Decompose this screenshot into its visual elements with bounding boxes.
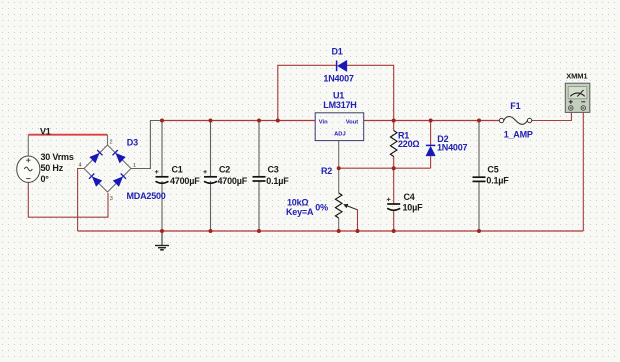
svg-text:50 Hz: 50 Hz	[41, 163, 64, 173]
svg-text:4700µF: 4700µF	[218, 176, 248, 186]
svg-text:R2: R2	[321, 166, 332, 176]
svg-text:LM317H: LM317H	[323, 100, 356, 110]
svg-text:U1: U1	[333, 90, 344, 100]
capacitor C5	[473, 177, 486, 181]
svg-text:10kΩ: 10kΩ	[287, 198, 308, 208]
svg-text:Vin: Vin	[319, 119, 328, 125]
ground	[155, 231, 169, 250]
svg-text:Key=A: Key=A	[286, 207, 314, 217]
wire V1 bottom to bridge pin3	[28, 183, 108, 218]
svg-text:F1: F1	[510, 101, 520, 111]
wire bridge pin1 to top rail corner	[131, 121, 162, 169]
wire C5 branch	[478, 121, 480, 178]
svg-text:C2: C2	[219, 164, 230, 174]
wire C1 branch	[161, 121, 163, 177]
svg-text:0°: 0°	[41, 174, 50, 184]
R2 wiper arrow	[343, 204, 357, 210]
wire C2 branch	[210, 121, 212, 177]
diode D2	[426, 145, 435, 156]
svg-text:30 Vrms: 30 Vrms	[41, 152, 74, 162]
wire	[347, 65, 394, 120]
wire bridge top drop	[107, 135, 109, 145]
resistor R1	[390, 131, 397, 157]
svg-text:3: 3	[110, 196, 113, 202]
source V1	[17, 156, 40, 182]
svg-text:ADJ: ADJ	[334, 132, 346, 138]
bridge rectifier D3	[84, 145, 131, 192]
wire Vout rail	[364, 120, 500, 122]
wire meter minus to ground rail	[582, 111, 584, 232]
junction dots	[160, 119, 481, 234]
wire ADJ pin	[338, 141, 340, 169]
wire R2 leads	[338, 168, 340, 193]
wire top rail Vin	[162, 120, 315, 122]
svg-text:1N4007: 1N4007	[437, 143, 468, 153]
capacitor C3	[253, 177, 266, 181]
svg-text:0%: 0%	[315, 202, 328, 212]
wire R1 leads	[393, 121, 395, 131]
svg-text:220Ω: 220Ω	[398, 139, 419, 149]
svg-text:XMM1: XMM1	[566, 72, 587, 81]
svg-text:V1: V1	[40, 127, 51, 137]
wire V1 top bright segment	[28, 134, 107, 136]
capacitor C2	[203, 170, 217, 183]
diode D1	[337, 60, 347, 71]
svg-text:C3: C3	[268, 164, 279, 174]
capacitor C4	[387, 198, 400, 211]
fuse F1	[499, 117, 532, 125]
svg-text:C1: C1	[172, 164, 183, 174]
svg-text:1_AMP: 1_AMP	[504, 129, 533, 139]
svg-text:C4: C4	[404, 192, 415, 202]
svg-text:C5: C5	[487, 165, 498, 175]
wire C4 branch	[393, 168, 395, 204]
svg-text:D1: D1	[332, 46, 343, 56]
svg-text:2: 2	[110, 140, 113, 146]
wire ground rail	[78, 230, 584, 232]
wire R2 wiper to ground	[357, 210, 359, 232]
wire D1 branch	[278, 65, 336, 120]
wire D2 branch	[430, 121, 432, 146]
svg-text:4: 4	[79, 163, 82, 169]
svg-text:4700µF: 4700µF	[170, 176, 200, 186]
svg-text:D3: D3	[127, 138, 138, 148]
wire V1 top lead vertical	[27, 135, 29, 156]
wire bridge pin4 to ground rail	[78, 169, 84, 232]
svg-text:Vout: Vout	[346, 119, 359, 125]
svg-text:1: 1	[133, 163, 136, 169]
potentiometer R2	[335, 193, 342, 218]
svg-text:1N4007: 1N4007	[323, 74, 354, 84]
regulator U1	[315, 113, 364, 141]
wire C3 branch	[258, 121, 260, 177]
svg-text:0.1µF: 0.1µF	[486, 175, 509, 185]
svg-text:MDA2500: MDA2500	[127, 191, 166, 201]
svg-text:10µF: 10µF	[403, 203, 424, 213]
multimeter XMM1	[565, 83, 590, 112]
wire ADJ net	[339, 167, 431, 169]
wire fuse to meter	[532, 111, 572, 121]
capacitor C1	[155, 170, 169, 183]
svg-text:0.1µF: 0.1µF	[266, 176, 289, 186]
